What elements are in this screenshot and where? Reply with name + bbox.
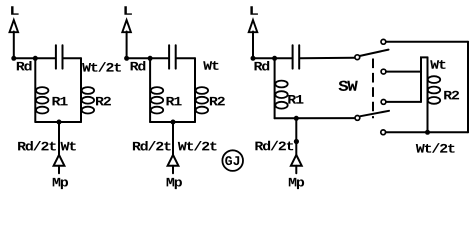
label Rd/2t (circuit 1): [18, 141, 56, 151]
junction top of R1 (circuit 1): [33, 56, 38, 61]
capacitor (circuit 2): [169, 45, 176, 68]
wire throw to right edge: [386, 41, 468, 43]
switch SW pole contact top: [355, 55, 360, 60]
junction dot on Mp tap (circuit 3): [294, 139, 299, 144]
wire top left (circuit 3): [253, 57, 292, 59]
junction bottom tap (circuit 1): [57, 120, 62, 125]
switch SW throw contact middle upper: [381, 69, 386, 74]
label L (circuit 1): [11, 6, 19, 15]
label Rd/2t (circuit 2): [133, 141, 171, 151]
label R1 (circuit 1): [53, 97, 68, 106]
junction node Rd (circuit 3): [251, 56, 256, 61]
wire top right to switch (circuit 3): [300, 57, 355, 60]
label GJ logo text: [225, 156, 239, 165]
wire right vertical (circuit 1): [80, 58, 82, 122]
label Mp (circuit 3): [289, 178, 304, 189]
label Rd (circuit 2): [131, 61, 146, 71]
wire Mp tap (circuit 2): [172, 122, 174, 155]
switch SW lever bottom: [361, 111, 390, 116]
switch SW throw contact bottom-right: [381, 130, 386, 135]
wire left vertical (circuit 1): [34, 58, 36, 122]
label Rd (circuit 1): [17, 61, 32, 71]
label SW: [339, 81, 358, 91]
switch SW pole contact bottom: [355, 116, 360, 121]
wire Mp tap (circuit 3): [295, 118, 297, 155]
inductor R2 (circuit 3): [428, 76, 440, 104]
label R1 (circuit 3): [288, 95, 303, 104]
inductor R2 (circuit 2): [196, 87, 208, 113]
inductor R2 (circuit 1): [82, 87, 94, 113]
label R2 (circuit 3): [444, 91, 459, 100]
wire Mp tap (circuit 1): [58, 122, 60, 155]
terminal arrow Mp (circuit 3): [291, 155, 302, 173]
terminal arrow L (circuit 2): [122, 20, 131, 58]
switch SW throw contact top-right: [381, 39, 386, 44]
inductor R1 (circuit 1): [36, 87, 48, 113]
label R1 (circuit 2): [167, 97, 182, 106]
junction top of R1 (circuit 2): [148, 56, 153, 61]
terminal arrow L (circuit 1): [10, 20, 19, 58]
logo GJ circle: [222, 150, 243, 171]
switch SW throw contact middle lower: [381, 100, 386, 105]
capacitor (circuit 3): [293, 45, 300, 68]
junction node Rd (circuit 2): [124, 56, 129, 61]
label L (circuit 3): [250, 6, 258, 15]
label R2 (circuit 1): [96, 97, 111, 106]
wire hairpin to R2 top (circuit 3): [421, 57, 428, 102]
wire from middle upper throw: [386, 71, 421, 73]
label Wt (circuit 3): [430, 60, 445, 69]
label Rd (circuit 3): [255, 61, 270, 71]
wire bottom (circuit 1): [35, 121, 81, 123]
label Wt (circuit 2 top): [203, 61, 218, 70]
switch SW lever top: [360, 50, 388, 56]
inductor R1 (circuit 2): [151, 87, 163, 113]
junction bottom tap (circuit 3): [294, 116, 299, 121]
switch SW linkage dashed: [372, 59, 374, 119]
wire left vertical (circuit 2): [149, 58, 151, 122]
terminal arrow Mp (circuit 2): [168, 155, 179, 173]
terminal arrow L (circuit 3): [249, 20, 258, 58]
wire bottom throw to right edge: [386, 131, 468, 133]
wire left vertical (circuit 3): [274, 58, 276, 118]
inductor R1 (circuit 3): [275, 81, 287, 109]
wire right edge vertical: [467, 42, 469, 133]
label Wt/2t (circuit 1): [82, 62, 121, 72]
wire bottom (circuit 3): [275, 117, 355, 119]
wire from middle lower throw: [386, 101, 421, 103]
junction node Rd (circuit 1): [11, 56, 16, 61]
wire top right (circuit 1): [64, 57, 82, 59]
wire right vertical (circuit 2): [194, 58, 196, 122]
terminal arrow Mp (circuit 1): [54, 155, 65, 173]
label Wt/2t (circuit 3): [416, 143, 455, 153]
capacitor (circuit 1): [56, 45, 63, 68]
label Wt/2t (circuit 2 bottom): [178, 141, 217, 151]
junction R2 bottom (circuit 3): [425, 130, 430, 135]
junction top of R1 (circuit 3): [272, 56, 277, 61]
junction bottom tap (circuit 2): [171, 120, 176, 125]
wire top left (circuit 1): [14, 57, 55, 59]
wire bottom (circuit 2): [150, 121, 195, 123]
label Wt (circuit 1 bottom): [61, 142, 76, 151]
label Mp (circuit 2): [167, 178, 182, 189]
label L (circuit 2): [124, 6, 132, 15]
label Rd/2t (circuit 3): [255, 141, 293, 151]
label Mp (circuit 1): [53, 178, 68, 189]
wire top right (circuit 2): [177, 57, 195, 59]
label R2 (circuit 2): [210, 97, 225, 106]
wire top left (circuit 2): [127, 57, 169, 59]
wire R2 vertical (circuit 3): [427, 57, 429, 132]
